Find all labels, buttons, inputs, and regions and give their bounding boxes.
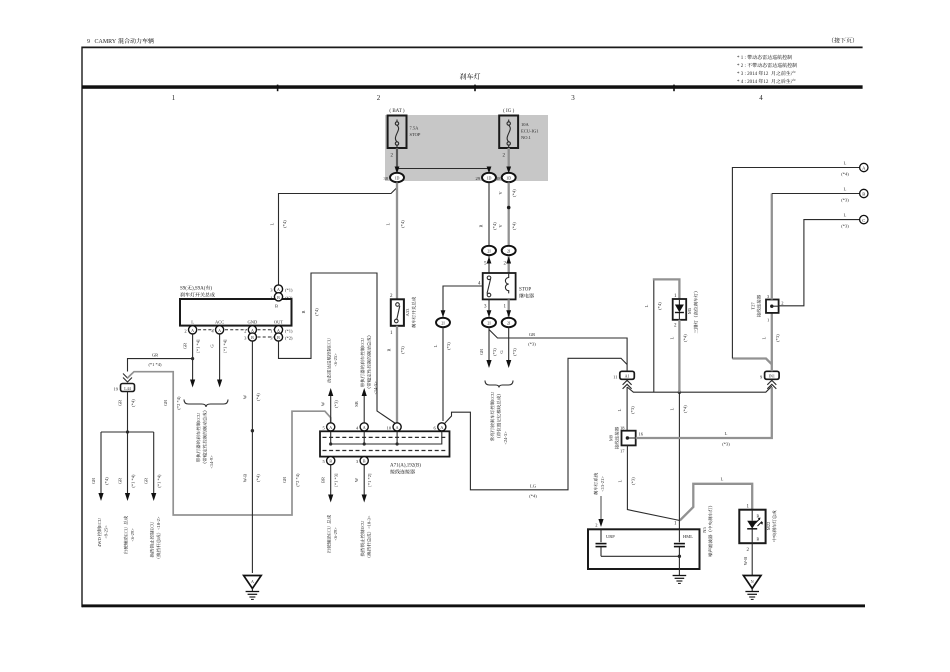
svg-text:GR: GR xyxy=(183,343,188,349)
svg-text:A71(A),192(B): A71(A),192(B) xyxy=(390,464,421,469)
svg-text:GR: GR xyxy=(479,349,484,355)
svg-text:A: A xyxy=(440,425,443,430)
thick header separator line xyxy=(82,85,863,89)
svg-text:L: L xyxy=(191,320,194,325)
wire to page connector A xyxy=(732,161,859,359)
junction connector M9 xyxy=(609,425,644,453)
svg-text:L: L xyxy=(617,408,622,411)
svg-text:(*2 *4): (*2 *4) xyxy=(176,396,181,410)
svg-text:NO.1: NO.1 xyxy=(521,135,531,140)
wire L(*3) M9 pin16 to IN1 gray xyxy=(636,387,772,447)
svg-text:LG: LG xyxy=(530,484,537,489)
svg-text:GR: GR xyxy=(163,400,168,406)
svg-text:SB: SB xyxy=(354,401,359,407)
section tick marks xyxy=(278,85,674,92)
svg-text:ECU: ECU xyxy=(97,517,102,527)
ground chassis below N5 xyxy=(673,569,687,583)
connector oval 2I below pin4 xyxy=(436,318,450,327)
svg-text:L: L xyxy=(669,336,674,339)
wire W-B M22 to ground xyxy=(743,543,752,575)
svg-text:1: 1 xyxy=(270,328,272,333)
svg-text:R: R xyxy=(387,348,392,351)
svg-text:B: B xyxy=(301,310,306,313)
svg-text:ECU: ECU xyxy=(327,337,332,347)
svg-text:(*3): (*3) xyxy=(722,442,730,447)
svg-text:N5: N5 xyxy=(702,527,707,533)
wire relay pin4 left down xyxy=(441,286,483,317)
fuse ECU-IG1 10A xyxy=(499,109,538,159)
svg-text:(*4): (*4) xyxy=(314,308,319,316)
svg-text:2: 2 xyxy=(781,301,783,306)
inline connector 11 A1 with chevrons xyxy=(613,371,634,389)
wire from stop light system ref into URP xyxy=(594,473,605,528)
svg-text:2: 2 xyxy=(184,328,186,333)
svg-text:),S9A(: ),S9A( xyxy=(192,287,206,292)
wire GR(*3) to ECU arrow xyxy=(479,330,497,368)
svg-text:(*2 *4): (*2 *4) xyxy=(295,473,300,487)
connector oval 2I below pin1 xyxy=(502,318,516,327)
svg-text:(*4): (*4) xyxy=(255,393,260,401)
wire W(*3) junction A1 up to ECU xyxy=(321,337,339,422)
wire G(*3) coil to ECU arrow xyxy=(499,328,517,369)
noise filter N5 box xyxy=(588,506,712,569)
svg-text:(*1 *4): (*1 *4) xyxy=(157,474,162,488)
svg-text:GR: GR xyxy=(91,478,96,484)
footnote legend xyxy=(737,55,797,85)
svg-text:(*1): (*1) xyxy=(285,288,293,293)
S9 bottom pins row B xyxy=(244,333,293,341)
wire L(*3) M9 pin17 down to HML merge xyxy=(617,445,679,520)
svg-text:(*3): (*3) xyxy=(512,348,517,356)
svg-text:<13-21>: <13-21> xyxy=(600,476,605,492)
wire GR(*3) relay output to connector A1 xyxy=(489,328,627,372)
svg-text:<24-3>: <24-3> xyxy=(503,431,508,445)
svg-text:B: B xyxy=(251,335,254,340)
svg-text:(*3): (*3) xyxy=(775,334,780,342)
svg-text:W: W xyxy=(354,477,359,482)
svg-text:C: C xyxy=(862,218,865,223)
svg-text:1D: 1D xyxy=(506,176,511,181)
svg-text:A: A xyxy=(191,328,194,333)
svg-text:1: 1 xyxy=(270,295,272,300)
svg-text:A: A xyxy=(396,425,399,430)
svg-text:N: N xyxy=(751,579,754,584)
svg-text:(*4): (*4) xyxy=(529,494,537,499)
svg-text:GR: GR xyxy=(144,478,149,484)
svg-text:2: 2 xyxy=(377,94,381,102)
wire L(*3) connector A1 down to M9 pin18 xyxy=(617,387,635,431)
svg-text:L: L xyxy=(644,304,649,307)
inline connector 9 IN1 with chevrons xyxy=(760,371,779,389)
svg-text:10: 10 xyxy=(387,425,392,430)
svg-text:L: L xyxy=(721,477,724,482)
svg-text:(*4): (*4) xyxy=(400,220,405,228)
label L(*3) on T27 pin1 wire xyxy=(761,334,780,342)
svg-text:GR: GR xyxy=(282,477,287,483)
page connector circle A xyxy=(860,163,868,171)
svg-text:1: 1 xyxy=(172,94,176,102)
svg-text:L: L xyxy=(669,407,674,410)
svg-text:A: A xyxy=(329,425,332,430)
svg-text:A1: A1 xyxy=(625,374,630,379)
wire relay pin3 down xyxy=(487,299,492,317)
svg-text:(*4): (*4) xyxy=(512,189,517,197)
wire GR branch to L44 xyxy=(128,353,193,372)
wire R(*3) gray A33 to junction A3 xyxy=(387,326,406,423)
stop light switch S9 box xyxy=(180,285,292,325)
svg-text:(*4): (*4) xyxy=(282,220,287,228)
junction connector T27 xyxy=(751,294,784,323)
svg-text:B: B xyxy=(757,514,760,519)
connector oval 38(1D) right xyxy=(496,173,516,182)
pin 1(B)(*2) top of S9 xyxy=(270,293,293,301)
wire GR(*1 *4) to ECU ref 3 xyxy=(144,432,162,558)
connector oval 29(1D) xyxy=(476,173,497,182)
svg-text:ECU: ECU xyxy=(150,521,155,531)
svg-text:(*3): (*3) xyxy=(446,342,451,350)
svg-text:(*4): (*4) xyxy=(841,172,849,177)
svg-text:12: 12 xyxy=(763,80,769,85)
wire G from ACC pin xyxy=(210,334,228,387)
svg-text:(*1): (*1) xyxy=(285,328,293,333)
svg-text:(*4): (*4) xyxy=(255,474,260,482)
connector oval 2I above relay pin2 xyxy=(502,246,516,273)
page connector circle B xyxy=(860,189,868,197)
svg-text:ECU-IG1: ECU-IG1 xyxy=(521,129,539,134)
svg-text:HML: HML xyxy=(683,534,693,539)
svg-text:* 3 : 2014: * 3 : 2014 xyxy=(737,72,758,77)
svg-text:1: 1 xyxy=(767,318,769,323)
svg-text:3: 3 xyxy=(571,94,575,102)
wire M5 diode bypass loop xyxy=(644,279,680,392)
svg-text:<14-5>: <14-5> xyxy=(373,381,378,395)
svg-text:4WD: 4WD xyxy=(97,537,102,547)
svg-text:BR: BR xyxy=(321,477,326,483)
svg-text:(*4): (*4) xyxy=(131,399,136,407)
junction pins bottom B row xyxy=(322,457,368,465)
ground A xyxy=(244,576,262,600)
svg-text:OUT: OUT xyxy=(274,320,283,325)
page frame border xyxy=(82,47,865,608)
svg-text:(*3): (*3) xyxy=(630,406,635,414)
svg-text:<9-25>: <9-25> xyxy=(104,525,109,539)
svg-text:STOP: STOP xyxy=(410,132,421,137)
wire to page connector B xyxy=(772,187,860,300)
svg-text:(*3): (*3) xyxy=(841,224,849,229)
dashed links between pins xyxy=(198,330,274,337)
svg-text:1D: 1D xyxy=(487,176,492,181)
svg-text:38: 38 xyxy=(496,176,501,181)
svg-text:M5: M5 xyxy=(687,307,692,314)
svg-text:L: L xyxy=(270,222,275,225)
wire relay pin5 up to 1D xyxy=(479,183,498,246)
page connector circle C xyxy=(860,215,868,223)
svg-text:16: 16 xyxy=(639,432,644,437)
svg-text:ECU: ECU xyxy=(196,412,201,422)
wire L(*4) gray down to switch A33 xyxy=(386,183,406,300)
brace under L/ACC arrows xyxy=(184,400,228,469)
node HML pin1 merge xyxy=(674,518,679,529)
pin 3(A)(*1) top of S9 xyxy=(270,285,293,293)
wire gray (*4) from page-A vertical into IN1 xyxy=(732,359,771,365)
svg-text:L: L xyxy=(844,187,847,192)
svg-text:URP: URP xyxy=(606,534,615,539)
svg-text:S9(: S9( xyxy=(180,287,187,292)
wire L(*4) branch to diode and IN1 xyxy=(627,386,772,394)
svg-text:GR: GR xyxy=(118,478,123,484)
svg-text:2: 2 xyxy=(244,328,246,333)
svg-text:L: L xyxy=(386,222,391,225)
relay STOP xyxy=(478,262,534,310)
junction connector A71/192 xyxy=(320,431,450,474)
svg-text:(*3): (*3) xyxy=(841,198,849,203)
wire GR(*4) to ECU ref 1 xyxy=(91,432,109,547)
svg-text:ECU: ECU xyxy=(490,391,495,401)
svg-text:M9: M9 xyxy=(609,434,614,441)
svg-text:B: B xyxy=(757,537,760,542)
svg-text:B: B xyxy=(277,295,280,300)
svg-text:[*1 *3]: [*1 *3] xyxy=(334,473,339,487)
svg-text:B: B xyxy=(329,459,332,464)
wire fuse2 down xyxy=(506,148,511,174)
wire B(*4) OUT loop xyxy=(279,273,396,424)
svg-text:L: L xyxy=(844,213,847,218)
svg-text:GR: GR xyxy=(529,332,535,337)
svg-text:M22: M22 xyxy=(766,522,771,531)
svg-text:GR: GR xyxy=(152,353,158,358)
svg-text:10A: 10A xyxy=(521,122,530,127)
section numbers xyxy=(172,94,764,102)
junction pins top A row xyxy=(322,423,445,431)
connector oval 2I below pin3 xyxy=(482,318,496,327)
svg-text:B: B xyxy=(363,459,366,464)
svg-text:W: W xyxy=(242,394,247,399)
svg-text:W-B: W-B xyxy=(743,557,748,566)
svg-text:(*2): (*2) xyxy=(285,295,293,300)
wire W(*1 *2) junction B2 down to ECU xyxy=(354,465,372,557)
svg-text:17: 17 xyxy=(620,449,625,454)
svg-text:11: 11 xyxy=(613,374,617,379)
svg-text:ECU: ECU xyxy=(360,337,365,347)
svg-text:7.5A: 7.5A xyxy=(410,126,420,131)
svg-text:T27: T27 xyxy=(751,302,756,310)
wire relay pin1 down xyxy=(506,299,511,317)
svg-text:[*1 *4]: [*1 *4] xyxy=(196,339,201,353)
svg-text:(*3): (*3) xyxy=(400,346,405,354)
inline connector 19 L44 with chevrons xyxy=(114,374,135,392)
svg-text:( BAT ): ( BAT ) xyxy=(389,109,405,114)
svg-text:1D: 1D xyxy=(395,176,400,181)
wire gray T27 pin1 down to IN1 xyxy=(771,313,773,371)
svg-text:L: L xyxy=(617,479,622,482)
wire BR(*1 *3) junction B1 down to ECU xyxy=(321,465,339,553)
ground N xyxy=(743,576,761,600)
svg-text:A: A xyxy=(277,287,280,292)
svg-text:[*1 *2]: [*1 *2] xyxy=(367,473,372,487)
svg-text:* 2 :: * 2 : xyxy=(737,64,746,69)
svg-text:(*3): (*3) xyxy=(334,400,339,408)
wire V(*4) gray IG to relay coil xyxy=(498,183,517,246)
diode M5 (high mount stop light) xyxy=(673,291,698,333)
wire L(*4) from 1D to stop light switch xyxy=(270,183,398,285)
svg-text:<10-3>: <10-3> xyxy=(367,515,372,529)
svg-text:[*1 *4]: [*1 *4] xyxy=(223,339,228,353)
svg-text:(*3): (*3) xyxy=(630,477,635,485)
svg-text:ACC: ACC xyxy=(215,320,224,325)
svg-text:A: A xyxy=(251,579,254,584)
svg-text:L: L xyxy=(433,344,438,347)
wire GR(*1 *4) to ECU ref 2 xyxy=(118,432,136,554)
page header text xyxy=(87,37,854,45)
svg-text:A: A xyxy=(363,425,366,430)
brace to ECU reference xyxy=(485,381,513,445)
svg-text:<6-25>: <6-25> xyxy=(333,353,338,367)
LED lamp M22 center stop light xyxy=(739,505,776,554)
svg-text:L44: L44 xyxy=(124,386,130,391)
wire to page connector C xyxy=(779,213,860,306)
svg-text:(*4): (*4) xyxy=(657,302,662,310)
svg-text:38: 38 xyxy=(384,176,389,181)
wire gray L feed to M22 xyxy=(680,477,752,521)
wire fuse1 down with branch xyxy=(395,148,492,174)
switch A33 box xyxy=(390,294,416,336)
svg-text:R: R xyxy=(479,224,484,227)
svg-text:(*4): (*4) xyxy=(682,334,687,342)
node GR bus xyxy=(101,430,154,433)
svg-text:18: 18 xyxy=(620,425,625,430)
svg-text:<6-29>: <6-29> xyxy=(333,527,338,541)
svg-text:(*1 *4): (*1 *4) xyxy=(131,474,136,488)
svg-text:(*3): (*3) xyxy=(492,348,497,356)
svg-text:A33: A33 xyxy=(405,308,410,316)
svg-text:(*4): (*4) xyxy=(682,405,687,413)
svg-text:B: B xyxy=(275,304,278,309)
wire GR from L pin xyxy=(183,334,201,387)
junction block shaded area xyxy=(385,115,548,181)
wire L(*3) oval to junction A4 xyxy=(433,328,451,422)
svg-text:L: L xyxy=(761,336,766,339)
svg-text:GND: GND xyxy=(248,320,258,325)
wire L(*4) diode down to HML merge xyxy=(669,320,687,518)
svg-text:9 CAMRY: 9 CAMRY xyxy=(87,39,117,45)
svg-text:A: A xyxy=(251,328,254,333)
svg-text:12: 12 xyxy=(763,72,769,77)
svg-text:* 4 : 2014: * 4 : 2014 xyxy=(737,80,758,85)
wire LG(*4) loop A4 to connector A1 branch xyxy=(445,358,628,498)
svg-text:B: B xyxy=(862,192,865,197)
wire W / W-B ground wire from GND pin xyxy=(242,342,260,574)
svg-text:ECU: ECU xyxy=(360,520,365,530)
svg-text:( IG ): ( IG ) xyxy=(503,109,514,114)
svg-text:W-B: W-B xyxy=(242,474,247,483)
svg-text:(*4): (*4) xyxy=(104,477,109,485)
svg-text:B: B xyxy=(277,335,280,340)
svg-text:ECU: ECU xyxy=(327,525,332,535)
wire GR(*4) below L44 xyxy=(118,392,136,433)
svg-text:4: 4 xyxy=(759,94,763,102)
svg-text:29: 29 xyxy=(476,176,481,181)
svg-text:ECU: ECU xyxy=(124,526,129,536)
system title 刹车灯 xyxy=(460,73,480,79)
svg-text:GR: GR xyxy=(118,400,123,406)
svg-text:W: W xyxy=(321,401,326,406)
connector oval 2I above relay pin5 xyxy=(482,246,496,273)
svg-text:<14-9>: <14-9> xyxy=(209,455,214,469)
S9 bottom pins row A xyxy=(184,326,293,334)
svg-text:<10-2>: <10-2> xyxy=(156,516,161,530)
svg-text:<6-29>: <6-29> xyxy=(130,528,135,542)
svg-text:(*4): (*4) xyxy=(512,222,517,230)
svg-text:(*2): (*2) xyxy=(285,336,293,341)
connector oval 38(1D) xyxy=(384,173,405,182)
svg-text:IN1: IN1 xyxy=(769,374,775,379)
svg-text:(*3): (*3) xyxy=(528,342,536,347)
svg-text:* 1 :: * 1 : xyxy=(737,56,746,61)
svg-text:19: 19 xyxy=(114,387,119,392)
svg-text:L: L xyxy=(725,431,728,436)
fuse STOP 7.5A xyxy=(388,109,421,159)
wire GR(*2 *4) gray loop to junction A1 xyxy=(128,372,331,515)
svg-text:L: L xyxy=(844,161,847,166)
svg-text:(*1 *4): (*1 *4) xyxy=(148,362,162,367)
wire SB junction A2 up to ECU xyxy=(354,336,378,423)
svg-text:STOP: STOP xyxy=(519,288,531,293)
svg-text:2: 2 xyxy=(595,523,597,528)
svg-text:(*4): (*4) xyxy=(492,222,497,230)
svg-text:A: A xyxy=(277,328,280,333)
svg-text:A: A xyxy=(218,328,221,333)
